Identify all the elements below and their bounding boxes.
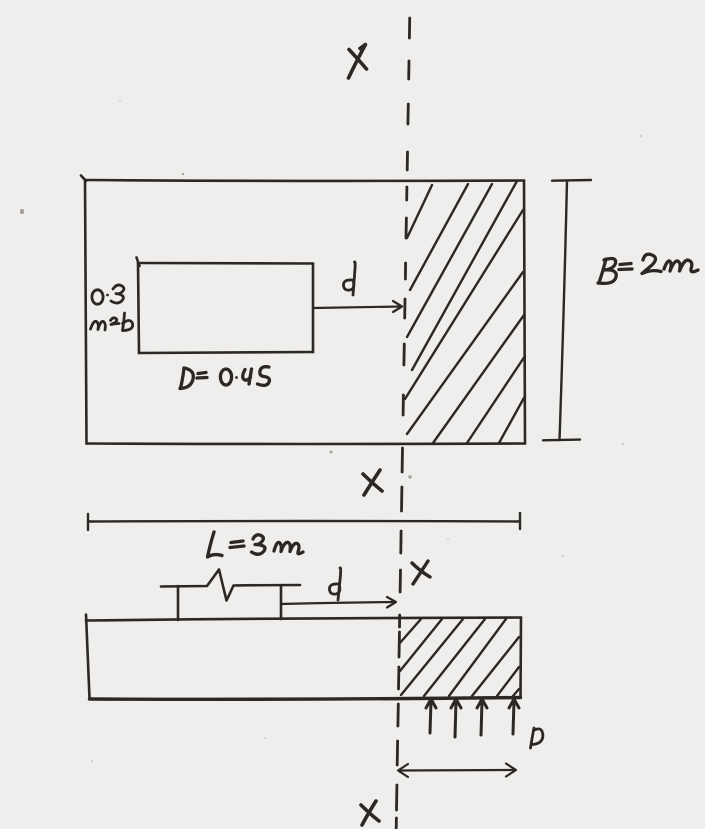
text "0.3" [92,285,124,304]
upward pressure arrows p [426,699,519,737]
column footprint rectangle (plan) [137,258,314,354]
text "D = 0.45" [180,367,269,389]
section line X-X (dashed vertical) [396,18,410,828]
text "p" [531,728,543,748]
dimension d arrow (elevation) [281,597,396,608]
text "d" (elevation) [329,568,340,600]
L dimension line [88,513,520,530]
elevation footing rectangle [86,615,521,700]
column with break (elevation) [161,570,300,621]
label X middle [363,470,382,495]
text "L = 3m" [208,532,304,557]
hatching, plan view right of X-X [405,181,525,443]
dimension d arrow (plan) [313,301,402,312]
label X top [349,45,367,79]
label X above elevation [412,561,430,584]
text "B = 2m" [598,254,698,283]
paper specks [20,100,642,762]
plan view footing rectangle [81,176,525,445]
label X bottom [361,801,379,825]
hatching, elevation right of X-X [399,619,519,696]
B dimension line [543,180,591,440]
text "m=b" [91,313,133,331]
double headed dimension arrow below [398,764,516,778]
text "d" (plan) [343,262,355,295]
